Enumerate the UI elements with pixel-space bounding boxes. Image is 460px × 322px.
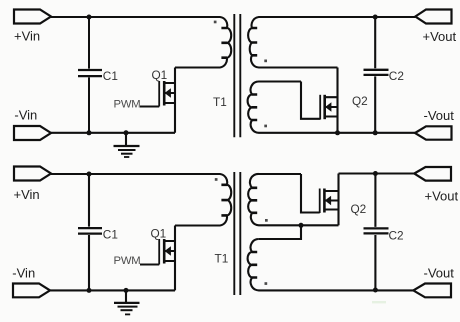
connector +Vin (top circuit) (14, 10, 51, 24)
wire bottom input rail (top circuit) (51, 132, 175, 134)
polarity dot primary (bottom circuit) (215, 178, 218, 181)
transistor Q2 N-MOSFET (bottom circuit) (320, 174, 339, 226)
svg-text:T1: T1 (215, 252, 229, 266)
svg-text:Q2: Q2 (352, 94, 368, 108)
node junction dot C2 bottom (bottom circuit) (373, 288, 378, 293)
capacitor C2 (bottom circuit) (364, 174, 389, 291)
polarity dot top secondary (bottom circuit) (265, 219, 268, 222)
wire +Vout rail (bottom circuit) (339, 172, 415, 174)
transformer T1 bottom secondary winding + wire to -Vout (bottom circuit) (248, 239, 414, 290)
capacitor C1 (top circuit) (78, 17, 102, 133)
connector -Vin (top circuit) (14, 126, 51, 140)
connector -Vout (top circuit) (415, 126, 452, 139)
transistor Q1 N-MOSFET (bottom circuit) (140, 226, 175, 291)
svg-text:-Vout: -Vout (424, 108, 455, 123)
ground (bottom circuit) (114, 290, 140, 314)
polarity dot primary (top circuit) (214, 21, 217, 24)
wire top input rail to transformer primary (top circuit) with primary winding of T1 (51, 17, 231, 68)
svg-text:PWM: PWM (114, 99, 141, 111)
ground (top circuit) (114, 133, 140, 157)
transformer T1 core lines (bottom circuit) (234, 172, 240, 295)
capacitor C1 (bottom circuit) (78, 174, 102, 290)
transformer T1 core lines (top circuit) (234, 14, 240, 137)
wire gate feed from top secondary to Q2 gate (bottom circuit) (301, 174, 320, 213)
svg-text:Q1: Q1 (151, 226, 167, 240)
connector +Vin (bottom circuit) (14, 167, 51, 181)
svg-text:-Vout: -Vout (424, 266, 455, 281)
svg-text:+Vin: +Vin (14, 187, 40, 202)
svg-text:C1: C1 (103, 228, 118, 242)
svg-text:+Vout: +Vout (423, 29, 457, 44)
node junction dot ground/bottom rail (bottom circuit) (124, 288, 129, 293)
node junction dot windings/Q2 source (bottom circuit) (299, 223, 304, 228)
transformer T1 top secondary winding + wire to +Vout (top circuit) (248, 17, 415, 68)
wire link between secondary windings (bottom circuit) (259, 225, 301, 239)
node junction dot C2 top (top circuit) (373, 15, 378, 20)
scan artifact green dash (372, 301, 386, 303)
transformer T1 top secondary ticks (top circuit) (252, 28, 257, 55)
connector +Vout (bottom circuit) (414, 167, 451, 181)
node junction dot +Vin/C1 (top circuit) (87, 15, 92, 20)
connector +Vout (top circuit) (415, 10, 451, 24)
transformer T1 primary winding ticks (top circuit) (221, 28, 227, 58)
svg-text:+Vin: +Vin (14, 29, 40, 44)
transistor Q1 N-MOSFET (top circuit) (140, 68, 175, 133)
polarity dot bottom secondary (bottom circuit) (265, 282, 268, 285)
transformer T1 bottom secondary ticks (top circuit) (252, 95, 257, 121)
svg-text:-Vin: -Vin (12, 266, 35, 281)
node junction dot C1/bottom rail (bottom circuit) (87, 288, 92, 293)
svg-text:PWM: PWM (114, 255, 141, 267)
svg-text:Q2: Q2 (351, 202, 367, 216)
svg-text:-Vin: -Vin (14, 108, 37, 123)
node junction dot ground/bottom rail (top circuit) (124, 130, 129, 135)
polarity dot bottom secondary (top circuit) (264, 125, 267, 128)
node junction dot +Vin/C1 (bottom circuit) (87, 172, 92, 177)
wire bottom input rail (bottom circuit) (50, 289, 175, 291)
transformer T1 top secondary ticks (bottom circuit) (252, 188, 257, 213)
capacitor C2 (top circuit) (364, 17, 389, 133)
connector -Vin (bottom circuit) (13, 284, 50, 298)
svg-text:+Vout: +Vout (425, 189, 459, 204)
connector -Vout (bottom circuit) (413, 284, 451, 298)
svg-text:C2: C2 (389, 69, 404, 83)
wire gate feed from bottom secondary to Q2 gate (top circuit) (301, 82, 320, 119)
node junction dot C1/bottom rail (top circuit) (87, 130, 92, 135)
polarity dot top secondary (top circuit) (264, 60, 267, 63)
svg-text:T1: T1 (213, 95, 227, 109)
transformer T1 bottom secondary ticks (bottom circuit) (252, 252, 257, 278)
wire top input rail + primary winding of T1 (bottom circuit) (51, 174, 231, 226)
node junction dot C2 bottom (top circuit) (373, 130, 378, 135)
svg-text:Q1: Q1 (152, 68, 168, 82)
transformer T1 bottom secondary winding + wires (top circuit) (248, 82, 415, 133)
svg-text:C1: C1 (103, 69, 118, 83)
transformer T1 top secondary winding + source wire (bottom circuit) (248, 174, 338, 225)
transformer T1 primary winding ticks (bottom circuit) (221, 185, 227, 216)
node junction dot Q2 source / -Vout rail (top circuit) (335, 130, 340, 135)
node junction dot C2 top (bottom circuit) (373, 171, 378, 176)
svg-text:C2: C2 (389, 228, 404, 242)
transistor Q2 N-MOSFET (top circuit) (320, 68, 337, 133)
